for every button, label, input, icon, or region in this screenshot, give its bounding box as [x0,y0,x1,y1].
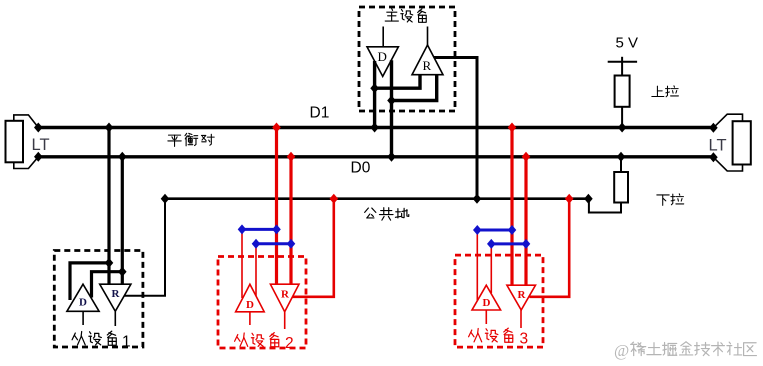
svg-text:D: D [483,297,491,309]
svg-text:R: R [518,289,527,301]
svg-text:LT: LT [32,136,50,154]
svg-text:R: R [423,58,432,73]
svg-text:5 V: 5 V [616,35,639,52]
svg-text:1: 1 [122,334,131,351]
svg-text:D0: D0 [351,160,371,177]
svg-text:@: @ [614,341,629,360]
svg-text:D: D [79,297,87,309]
svg-text:D: D [246,299,254,311]
svg-text:R: R [112,288,121,300]
svg-text:3: 3 [520,331,529,348]
svg-text:D1: D1 [310,105,330,122]
svg-text:LT: LT [709,137,727,155]
svg-text:2: 2 [285,335,294,352]
svg-text:D: D [378,49,387,64]
svg-text:R: R [281,289,290,301]
